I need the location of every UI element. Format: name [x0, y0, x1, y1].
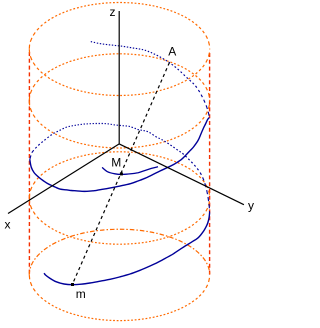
ellipse E1 top back arc	[29, 3, 209, 49]
cylinder right edge	[209, 53, 211, 276]
svg-text:m: m	[76, 287, 86, 301]
ellipse E4 bottom front arc	[29, 275, 209, 321]
point m	[71, 283, 74, 286]
ellipse E3 front arc	[29, 198, 209, 244]
cylinder left edge	[28, 52, 30, 274]
point M	[120, 172, 123, 175]
dashed line A M m	[72, 63, 169, 285]
ellipse E4 bottom back arc	[29, 229, 210, 275]
ellipse E2 back arc	[29, 54, 209, 101]
svg-text:M: M	[111, 156, 121, 170]
svg-text:y: y	[248, 199, 254, 213]
svg-text:A: A	[168, 44, 176, 58]
helix sweep B2 front solid	[30, 118, 210, 192]
helix sweep B4 front solid	[44, 213, 210, 285]
small circle arc B5 near M	[102, 167, 158, 175]
ellipse E3 back arc	[29, 152, 209, 198]
x axis	[8, 144, 119, 214]
svg-text:z: z	[110, 5, 116, 19]
ellipse E1 top front arc	[29, 49, 209, 95]
svg-text:x: x	[5, 218, 11, 232]
z axis	[118, 11, 120, 144]
helix sweep B1 back dotted	[91, 42, 209, 116]
helix sweep B3 back dotted	[30, 124, 210, 214]
y axis	[119, 144, 244, 205]
ellipse E2 front arc	[29, 101, 209, 148]
